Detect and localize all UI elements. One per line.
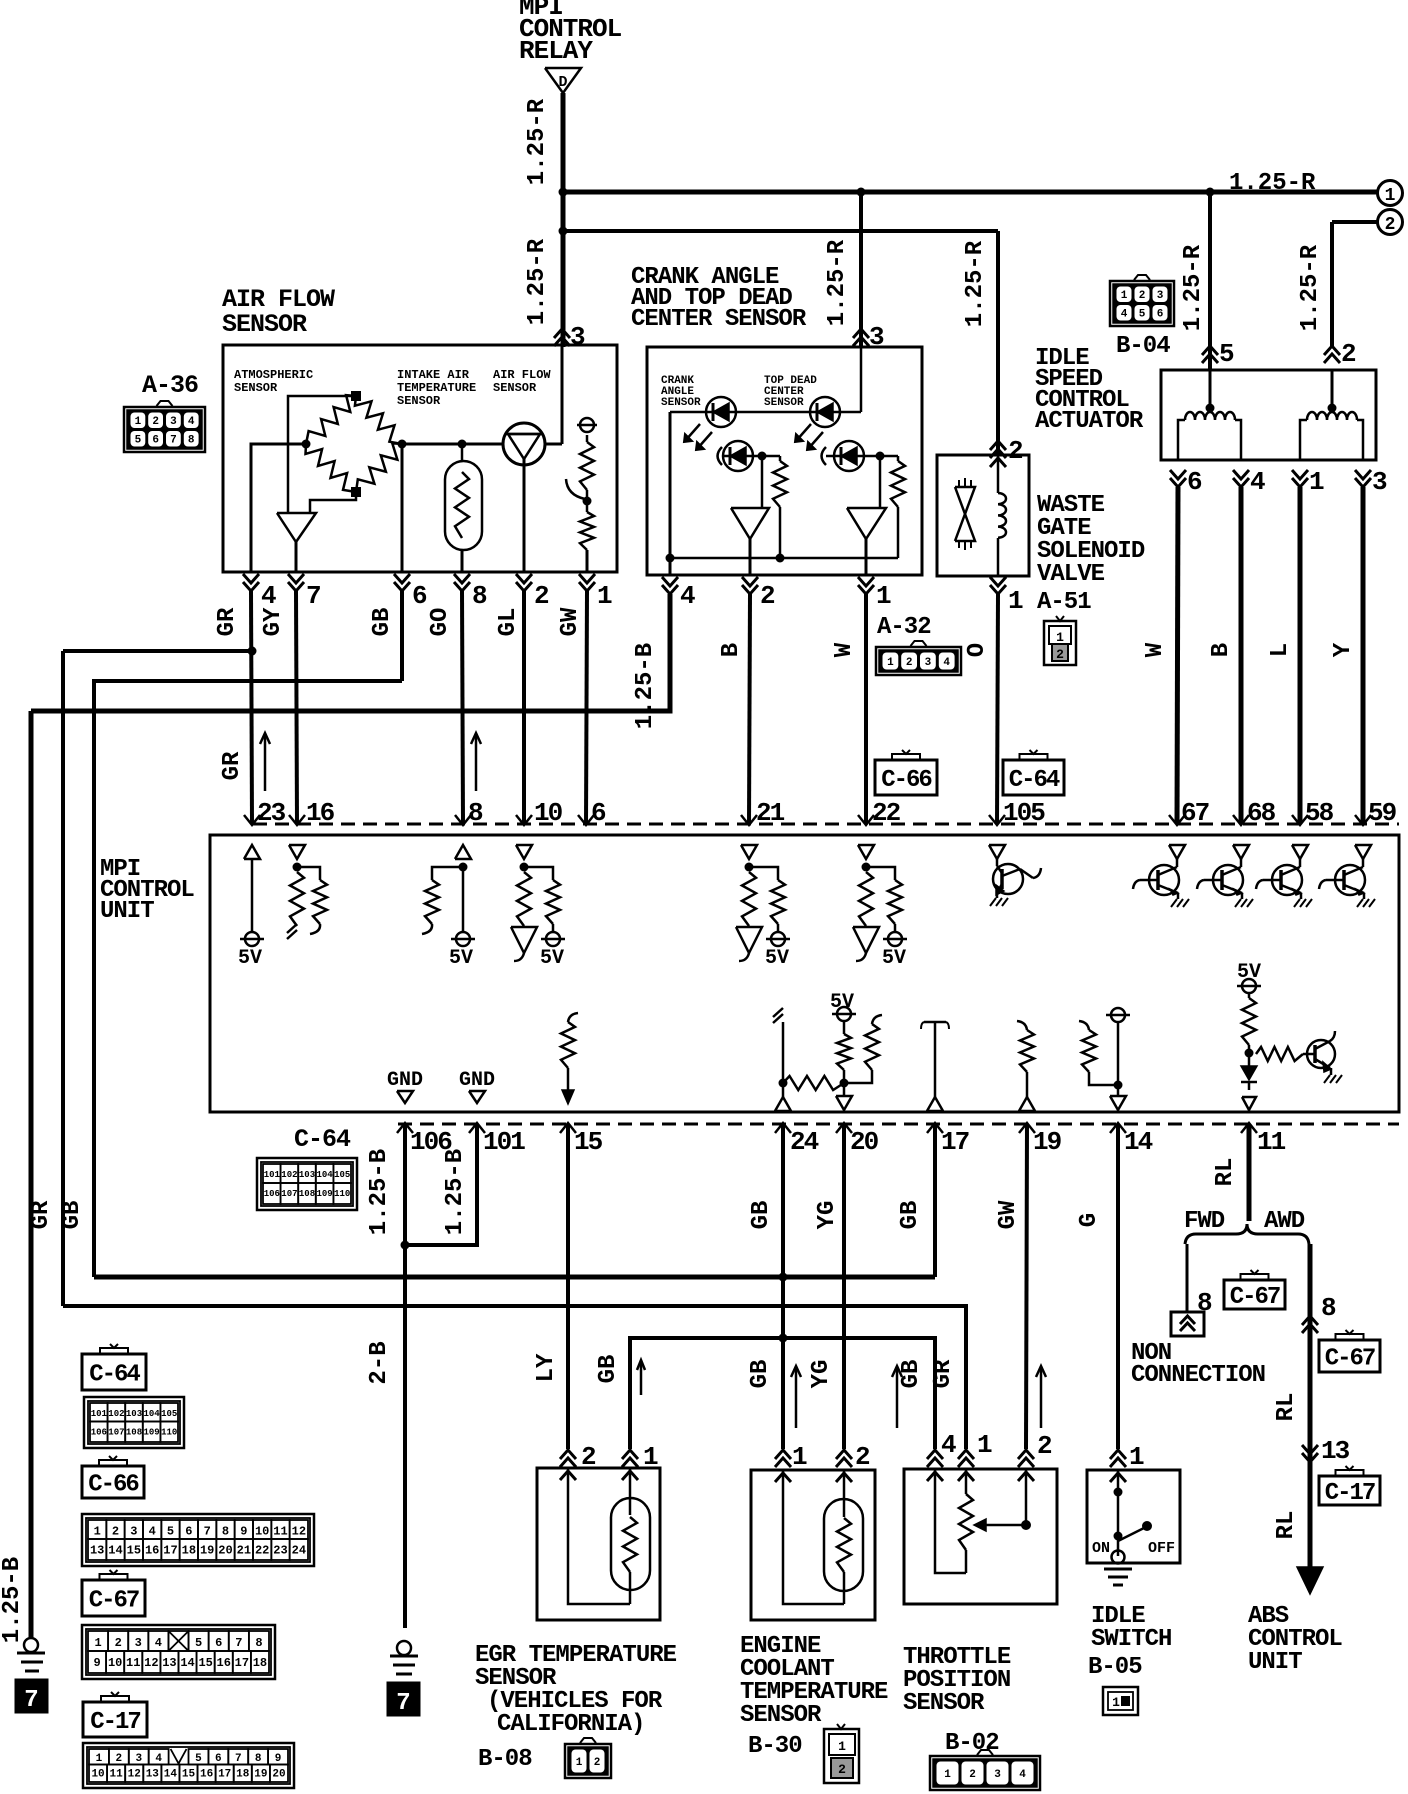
- wire AWD branch RL: [1308, 1244, 1313, 1568]
- svg-text:16: 16: [306, 798, 335, 828]
- svg-text:1: 1: [887, 657, 894, 669]
- svg-text:5: 5: [167, 1524, 174, 1538]
- svg-text:4: 4: [188, 416, 195, 428]
- svg-text:SWITCH: SWITCH: [1091, 1626, 1171, 1653]
- svg-text:GY: GY: [260, 607, 287, 636]
- node bridge bottom: [351, 487, 361, 497]
- svg-text:6: 6: [591, 798, 606, 828]
- svg-text:B-05: B-05: [1088, 1654, 1142, 1681]
- svg-text:LY: LY: [533, 1353, 560, 1382]
- svg-text:1: 1: [576, 1757, 583, 1769]
- MPI pin 19 bottom terminal: [1019, 1123, 1035, 1133]
- svg-text:13: 13: [146, 1769, 160, 1781]
- coolant thermistor capsule: [824, 1499, 863, 1591]
- svg-text:SENSOR: SENSOR: [222, 310, 307, 339]
- direction arrow GO wire: [475, 733, 478, 791]
- svg-text:6: 6: [215, 1636, 222, 1650]
- air flow sensor pin 2 exit arrow: [516, 582, 532, 591]
- svg-text:GND: GND: [387, 1069, 423, 1092]
- svg-text:9: 9: [275, 1753, 282, 1765]
- label C-64 mid-right boxed: [1003, 760, 1064, 795]
- wire W crank pin1 to MPI pin22: [864, 594, 868, 824]
- TPS wiper: [1025, 1469, 1028, 1525]
- wire from circle 2 to ISC pin 2: [1332, 220, 1377, 224]
- label C-66 left: [82, 1466, 144, 1498]
- svg-text:SENSOR: SENSOR: [764, 397, 804, 409]
- wire pin101 joins pin106: [405, 1124, 477, 1245]
- svg-text:ATMOSPHERIC: ATMOSPHERIC: [234, 368, 313, 382]
- svg-text:12: 12: [144, 1656, 158, 1670]
- svg-text:C-64: C-64: [294, 1125, 351, 1154]
- svg-text:1: 1: [94, 1524, 101, 1538]
- svg-text:11: 11: [110, 1769, 124, 1781]
- ground marker 7 left: [15, 1679, 48, 1713]
- svg-text:1.25-B: 1.25-B: [366, 1149, 393, 1235]
- connector A-32: [876, 647, 961, 675]
- MPI pin 68 internal: driver transistor: [1233, 845, 1249, 859]
- MPI pin 17 bottom terminal: [927, 1123, 943, 1133]
- svg-text:GR: GR: [219, 751, 246, 780]
- svg-text:2: 2: [116, 1753, 123, 1765]
- svg-text:2: 2: [152, 416, 159, 428]
- label C-17 right: [1319, 1476, 1380, 1505]
- svg-text:15: 15: [198, 1656, 212, 1670]
- coolant pin2 entry arrow: [836, 1450, 852, 1459]
- svg-text:GO: GO: [427, 608, 454, 637]
- svg-text:106: 106: [91, 1427, 107, 1437]
- MPI control relay terminal D (triangle): [545, 68, 581, 93]
- MPI pin15 internal: resistor with arrow: [568, 1013, 578, 1022]
- svg-text:CENTER SENSOR: CENTER SENSOR: [631, 306, 807, 333]
- node junction intake air temp sensor: [458, 440, 467, 449]
- svg-text:7: 7: [235, 1636, 242, 1650]
- svg-text:5V: 5V: [540, 947, 564, 970]
- svg-text:110: 110: [161, 1427, 177, 1437]
- svg-text:1: 1: [1112, 1695, 1120, 1710]
- node junction tdc PT: [876, 452, 885, 461]
- svg-text:16: 16: [217, 1656, 231, 1670]
- connector C-17 block: [83, 1743, 294, 1788]
- wire pot top: [586, 435, 589, 442]
- wire GL pin2 to MPI pin10: [522, 591, 526, 824]
- MPI pin 58 internal: driver transistor: [1292, 845, 1308, 859]
- label C-67 left: [82, 1580, 145, 1616]
- svg-text:110: 110: [334, 1189, 350, 1199]
- wire tdc PT to resistor: [864, 455, 898, 458]
- wire GO pin8 to MPI pin8: [462, 591, 463, 824]
- wire tdc amp out to pin 1: [865, 539, 868, 575]
- svg-text:B: B: [718, 643, 745, 657]
- ISC pin 5 entry arrow: [1202, 346, 1218, 355]
- svg-text:B-08: B-08: [478, 1746, 532, 1773]
- node junction on bus 1: [559, 188, 568, 197]
- wire pot mid: [586, 490, 589, 512]
- wire bridge right node down to pin 6: [401, 444, 404, 572]
- svg-text:3: 3: [130, 1524, 137, 1538]
- svg-text:102: 102: [108, 1409, 124, 1419]
- svg-text:16: 16: [200, 1769, 213, 1781]
- svg-text:106: 106: [264, 1189, 280, 1199]
- svg-text:1: 1: [597, 581, 612, 611]
- svg-text:101: 101: [264, 1170, 281, 1180]
- svg-text:1: 1: [1008, 586, 1023, 616]
- phototransistor top dead center: [822, 447, 827, 465]
- svg-text:2: 2: [112, 1524, 119, 1538]
- svg-text:UNIT: UNIT: [100, 898, 154, 925]
- svg-text:C-67: C-67: [1325, 1346, 1375, 1373]
- svg-text:5: 5: [1219, 339, 1234, 369]
- svg-text:1: 1: [1121, 290, 1128, 302]
- svg-text:2: 2: [1341, 339, 1356, 369]
- svg-text:15: 15: [127, 1543, 141, 1557]
- MPI pin 101 bottom terminal: [469, 1123, 485, 1133]
- svg-text:109: 109: [316, 1189, 332, 1199]
- svg-text:7: 7: [235, 1753, 242, 1765]
- svg-text:17: 17: [235, 1656, 249, 1670]
- node bridge top: [351, 391, 361, 401]
- wire FWD branch: [1186, 1244, 1189, 1312]
- svg-text:GB: GB: [59, 1201, 86, 1230]
- resistor bridge bottom-left: [306, 444, 357, 492]
- svg-text:C-64: C-64: [1009, 767, 1060, 794]
- svg-text:16: 16: [145, 1543, 159, 1557]
- svg-text:RELAY: RELAY: [519, 36, 593, 66]
- svg-text:6: 6: [152, 435, 159, 447]
- TPS internal wiring: [927, 1472, 943, 1481]
- crank sensor pin 4 exit arrow: [662, 585, 678, 594]
- wire GB pin6 down: [400, 591, 404, 681]
- svg-text:1.25-B: 1.25-B: [442, 1149, 469, 1235]
- svg-text:GB: GB: [747, 1360, 774, 1389]
- svg-text:1.25-R: 1.25-R: [524, 238, 551, 325]
- svg-text:3: 3: [925, 657, 932, 669]
- wire RL pin11: [1247, 1124, 1252, 1221]
- svg-text:13: 13: [90, 1543, 104, 1557]
- svg-text:3: 3: [570, 322, 585, 352]
- node junction GR branch: [248, 647, 257, 656]
- svg-text:9: 9: [93, 1656, 100, 1670]
- svg-text:G: G: [1076, 1213, 1103, 1227]
- svg-text:109: 109: [143, 1427, 159, 1437]
- MPI pin105 internal: output transistor Q105: [989, 845, 1005, 859]
- wire 1.25-R from relay down to air flow sensor pin 3: [561, 93, 566, 347]
- svg-text:104: 104: [143, 1409, 160, 1419]
- svg-text:2: 2: [855, 1442, 870, 1472]
- node junction GB branch: [779, 1334, 788, 1343]
- coolant internal wiring: [775, 1473, 791, 1482]
- MPI pin 10 terminal: [516, 815, 532, 825]
- svg-text:GL: GL: [495, 608, 522, 637]
- svg-text:104: 104: [316, 1170, 333, 1180]
- non connection terminal box: [1171, 1312, 1204, 1336]
- node junction 101/106: [401, 1241, 410, 1250]
- svg-text:20: 20: [218, 1543, 232, 1557]
- svg-text:6: 6: [1157, 309, 1164, 321]
- svg-text:105: 105: [1003, 798, 1045, 828]
- AWD chevron 8: [1302, 1316, 1318, 1325]
- wire pot to pin 1: [586, 550, 589, 572]
- resistor intake air temp: [455, 472, 469, 538]
- connector B-30: [824, 1729, 859, 1783]
- svg-text:RL: RL: [1273, 1393, 1300, 1422]
- svg-text:108: 108: [299, 1189, 315, 1199]
- ISC coil 1: [1185, 412, 1235, 420]
- EGR pin2 entry arrow: [560, 1450, 576, 1459]
- MPI pin17 internal: input line: [927, 1097, 943, 1111]
- wire 1.25-B crank pin4 to left bundle: [31, 594, 670, 711]
- connector C-64 mid block: [257, 1158, 357, 1210]
- wire GB branch to left bundle: [94, 681, 402, 1277]
- solenoid valve symbol: [955, 487, 975, 514]
- air flow sensor pin 8 exit arrow: [454, 582, 470, 591]
- MPI pin 58 terminal: [1292, 815, 1308, 825]
- svg-text:18: 18: [253, 1656, 267, 1670]
- svg-text:9: 9: [240, 1524, 247, 1538]
- air flow sensor circle symbol: [503, 423, 545, 465]
- MPI pin 22 terminal: [858, 815, 874, 825]
- svg-text:1: 1: [1056, 630, 1064, 645]
- wire ISC pin2 to coil 2: [1331, 370, 1334, 412]
- svg-text:2: 2: [969, 1769, 976, 1781]
- svg-text:GND: GND: [459, 1069, 495, 1092]
- svg-text:C-66: C-66: [88, 1472, 139, 1499]
- wire bridge top node to amplifier input: [288, 396, 356, 513]
- svg-text:14: 14: [108, 1543, 122, 1557]
- svg-text:17: 17: [941, 1127, 969, 1157]
- svg-text:101: 101: [483, 1127, 525, 1157]
- svg-text:8: 8: [1321, 1293, 1336, 1323]
- svg-text:TEMPERATURE: TEMPERATURE: [397, 381, 476, 395]
- wire L ISC pin1 to MPI pin58: [1298, 487, 1303, 824]
- svg-text:1: 1: [96, 1753, 103, 1765]
- svg-text:8: 8: [255, 1753, 262, 1765]
- svg-text:B: B: [1208, 643, 1235, 657]
- AWD chevron 13: [1302, 1453, 1318, 1462]
- svg-text:8: 8: [255, 1636, 262, 1650]
- svg-text:SENSOR: SENSOR: [397, 394, 441, 408]
- svg-text:3: 3: [135, 1636, 142, 1650]
- TPS pin4 entry arrow: [927, 1450, 943, 1459]
- svg-text:ON: ON: [1092, 1540, 1110, 1557]
- svg-text:INTAKE AIR: INTAKE AIR: [397, 368, 470, 382]
- svg-text:OFF: OFF: [1148, 1540, 1175, 1557]
- wire B crank pin2 to MPI pin21: [749, 594, 750, 824]
- MPI bottom dashed connector line: [398, 1123, 1399, 1126]
- svg-text:1: 1: [876, 581, 891, 611]
- svg-text:15: 15: [574, 1127, 603, 1157]
- svg-text:L: L: [1267, 643, 1294, 657]
- svg-text:W: W: [1142, 642, 1169, 657]
- svg-text:C-64: C-64: [89, 1362, 140, 1389]
- svg-text:2: 2: [534, 581, 549, 611]
- svg-text:59: 59: [1368, 798, 1397, 828]
- svg-text:Y: Y: [1330, 642, 1357, 657]
- MPI pin 67 internal: driver transistor: [1169, 845, 1185, 859]
- svg-text:14: 14: [180, 1656, 194, 1670]
- svg-text:4: 4: [1019, 1769, 1026, 1781]
- crank sensor pin 1 exit arrow: [858, 585, 874, 594]
- crank sensor box: [647, 347, 922, 575]
- svg-text:11: 11: [1257, 1127, 1286, 1157]
- svg-text:58: 58: [1305, 798, 1334, 828]
- svg-text:105: 105: [161, 1409, 177, 1419]
- air flow sensor pin 7 exit arrow: [288, 582, 304, 591]
- svg-text:2: 2: [1056, 647, 1064, 662]
- ISC pin 2 entry arrow: [1324, 346, 1340, 355]
- svg-text:GR: GR: [214, 607, 241, 636]
- svg-text:8: 8: [472, 581, 487, 611]
- node junction bus to ISC: [1206, 188, 1215, 197]
- svg-text:1.25-R: 1.25-R: [824, 239, 851, 326]
- svg-text:22: 22: [872, 798, 901, 828]
- node bridge left: [302, 440, 311, 449]
- node junction on relay wire for bus 2: [559, 227, 568, 236]
- connector C-64 left block: [84, 1397, 184, 1448]
- svg-text:ACTUATOR: ACTUATOR: [1035, 408, 1144, 435]
- connector B-05: [1103, 1687, 1138, 1715]
- wire 1.25-R down to crank sensor pin 3: [859, 192, 863, 347]
- ISC pin 4 exit arrow: [1233, 478, 1249, 487]
- svg-text:4: 4: [680, 581, 695, 611]
- svg-text:C-17: C-17: [90, 1709, 140, 1736]
- label C-17 left: [83, 1702, 147, 1737]
- svg-text:SENSOR: SENSOR: [740, 1702, 822, 1729]
- MPI pin22 internal: divider to 5V: [858, 845, 874, 859]
- ground marker 7 mid: [387, 1682, 420, 1716]
- wire crank supply internal: [860, 347, 863, 412]
- node pot junction: [583, 497, 592, 506]
- label C-67 right: [1319, 1340, 1380, 1372]
- svg-text:18: 18: [182, 1543, 196, 1557]
- pin 3 entry arrow crank sensor: [853, 329, 869, 338]
- idle switch ground: [1112, 1551, 1125, 1564]
- svg-text:C-67: C-67: [89, 1588, 139, 1615]
- op-amp amplifier atmospheric sensor: [277, 513, 316, 542]
- svg-text:6: 6: [412, 581, 427, 611]
- svg-text:YG: YG: [808, 1360, 835, 1389]
- wire crank ground bus: [669, 412, 672, 575]
- svg-text:3: 3: [1157, 290, 1164, 302]
- idle switch box: [1087, 1470, 1180, 1563]
- svg-text:2: 2: [1037, 1431, 1052, 1461]
- svg-text:5V: 5V: [765, 947, 789, 970]
- wire bridge bottom node to amplifier: [310, 492, 356, 513]
- wire 1.25-R down to ISC pin 5: [1208, 192, 1212, 369]
- svg-text:1: 1: [1129, 1442, 1144, 1472]
- svg-text:17: 17: [163, 1543, 177, 1557]
- svg-text:2-B: 2-B: [366, 1341, 393, 1384]
- wire junction to crank amplifier: [761, 456, 764, 508]
- svg-text:7: 7: [396, 1690, 410, 1717]
- intake air temperature sensor capsule: [445, 461, 482, 550]
- light arrows tdc: [796, 424, 811, 441]
- MPI pin 20 bottom terminal: [836, 1123, 852, 1133]
- waste gate pin 1 exit arrow: [990, 585, 1006, 594]
- svg-text:19: 19: [1033, 1127, 1062, 1157]
- svg-text:107: 107: [108, 1427, 124, 1437]
- wire 2-B pin106 to ground: [403, 1124, 407, 1628]
- svg-text:SENSOR: SENSOR: [903, 1690, 985, 1717]
- svg-text:1.25-R: 1.25-R: [1180, 244, 1207, 331]
- MPI pin 14 bottom terminal: [1110, 1123, 1126, 1133]
- label C-66 mid boxed: [875, 760, 937, 795]
- svg-text:4: 4: [941, 1430, 956, 1460]
- svg-text:13: 13: [1321, 1436, 1350, 1466]
- resistor pot upper: [580, 442, 594, 490]
- svg-text:21: 21: [237, 1543, 251, 1557]
- TPS potentiometer resistor: [959, 1494, 973, 1550]
- svg-text:RL: RL: [1212, 1158, 1239, 1187]
- svg-text:12: 12: [128, 1769, 141, 1781]
- engine coolant temperature sensor box: [751, 1470, 875, 1620]
- svg-text:20: 20: [272, 1769, 285, 1781]
- svg-text:GR: GR: [28, 1200, 55, 1229]
- svg-text:GB: GB: [898, 1360, 925, 1389]
- FWD AWD brace: [1185, 1224, 1309, 1244]
- svg-text:3: 3: [1372, 467, 1387, 497]
- svg-text:7: 7: [170, 435, 177, 447]
- MPI pin 68 terminal: [1233, 815, 1249, 825]
- svg-text:5V: 5V: [449, 947, 473, 970]
- wire bus 2 horizontal: [563, 229, 998, 233]
- svg-text:7: 7: [204, 1524, 211, 1538]
- svg-text:67: 67: [1181, 798, 1209, 828]
- node bridge right: [398, 440, 407, 449]
- phototransistor crank angle: [718, 447, 723, 465]
- GB bus line: [94, 1275, 935, 1280]
- svg-text:8: 8: [188, 435, 195, 447]
- MPI pin 59 internal: driver transistor: [1355, 845, 1371, 859]
- connector circle 1: [1378, 181, 1403, 206]
- svg-text:7: 7: [306, 581, 320, 611]
- MPI top dashed connector line: [253, 823, 1399, 826]
- node crank gnd junction left: [666, 554, 675, 563]
- svg-text:15: 15: [182, 1769, 196, 1781]
- waste gate solenoid valve box: [937, 455, 1029, 576]
- svg-text:B-30: B-30: [748, 1733, 802, 1760]
- svg-text:2: 2: [838, 1762, 846, 1777]
- light arrows crank: [685, 424, 700, 441]
- svg-text:2: 2: [906, 657, 913, 669]
- svg-text:10: 10: [255, 1524, 269, 1538]
- svg-text:103: 103: [299, 1170, 315, 1180]
- svg-text:1: 1: [1309, 467, 1324, 497]
- wire GB pin17 down to bus: [933, 1124, 937, 1277]
- svg-text:102: 102: [281, 1170, 297, 1180]
- svg-text:A-51: A-51: [1037, 589, 1091, 616]
- svg-text:4: 4: [149, 1524, 156, 1538]
- svg-text:1.25-R: 1.25-R: [962, 240, 989, 327]
- MPI pin 16 terminal: [289, 815, 305, 825]
- direction arrow GW: [1040, 1366, 1043, 1428]
- svg-text:5V: 5V: [238, 947, 262, 970]
- wire GB pin24 to coolant sensor pin1: [781, 1124, 785, 1449]
- svg-text:AIR FLOW: AIR FLOW: [493, 368, 551, 382]
- svg-text:5V: 5V: [882, 947, 906, 970]
- wire air flow circle to pin 2: [523, 459, 526, 572]
- svg-text:2: 2: [1385, 215, 1396, 235]
- svg-text:2: 2: [1008, 436, 1023, 466]
- svg-text:SENSOR: SENSOR: [234, 381, 278, 395]
- node junction bus to crank sensor: [857, 188, 866, 197]
- svg-text:UNIT: UNIT: [1248, 1649, 1302, 1676]
- EGR pin1 entry arrow: [622, 1450, 638, 1459]
- connector A-51: [1044, 621, 1076, 665]
- svg-text:13: 13: [162, 1656, 176, 1670]
- svg-text:1: 1: [94, 1636, 101, 1650]
- wire YG pin20 to coolant sensor pin2: [842, 1124, 846, 1449]
- resistor pot lower: [580, 512, 594, 550]
